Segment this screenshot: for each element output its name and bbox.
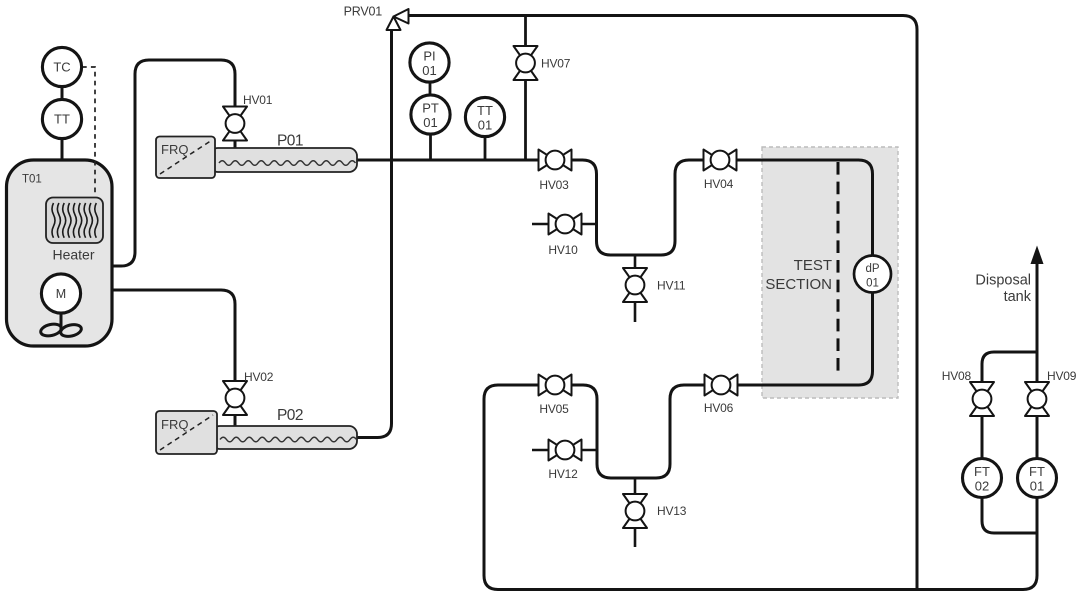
instrument PT01 (411, 95, 450, 134)
svg-text:HV13: HV13 (657, 504, 687, 518)
dashed test section centerline (837, 162, 840, 371)
svg-text:HV04: HV04 (704, 177, 734, 191)
valve HV04 (704, 150, 737, 171)
valve HV08 (970, 382, 994, 416)
instrument TT01 (465, 97, 504, 136)
valve HV01 (223, 107, 247, 141)
svg-text:02: 02 (975, 479, 989, 494)
svg-text:HV01: HV01 (243, 93, 273, 107)
svg-text:HV12: HV12 (548, 467, 578, 481)
instrument TT (42, 99, 81, 138)
wire: P01 outlet main line to HV03 (355, 159, 539, 162)
svg-text:HV05: HV05 (539, 402, 569, 416)
svg-text:P01: P01 (277, 133, 303, 150)
svg-text:FT: FT (974, 464, 990, 479)
svg-text:HV06: HV06 (704, 401, 734, 415)
svg-text:HV09: HV09 (1047, 369, 1077, 383)
svg-text:FT: FT (1029, 464, 1045, 479)
agitator propeller (40, 322, 83, 338)
valve HV06 (705, 375, 738, 396)
valve HV12 (549, 440, 582, 461)
svg-text:PRV01: PRV01 (344, 5, 383, 19)
valve HV13 (623, 494, 647, 528)
valve HV09 (1025, 382, 1049, 416)
svg-text:HV11: HV11 (657, 279, 686, 293)
wire: HV03 to HV04 U-loop (572, 160, 704, 255)
wire: FT02/HV08 parallel branch (982, 352, 1037, 533)
instrument dP01 (854, 256, 891, 293)
wire: HV11 drain stem (634, 255, 637, 322)
agitator shaft (60, 312, 63, 331)
svg-text:HV10: HV10 (548, 243, 578, 257)
wire: HV13 drain stem (634, 478, 637, 547)
svg-text:Heater: Heater (52, 247, 94, 263)
svg-text:TT: TT (54, 112, 70, 127)
valve HV03 (539, 150, 572, 171)
pump P02 body (212, 426, 357, 449)
valve HV05 (539, 375, 572, 396)
valve HV02 (223, 381, 247, 415)
svg-text:HV08: HV08 (942, 369, 972, 383)
wire: HV12 branch (532, 449, 597, 452)
svg-text:HV03: HV03 (539, 178, 569, 192)
dashed signal line TC to heater (82, 67, 95, 193)
wire: PT01 stem to main line (429, 134, 432, 160)
svg-text:TEST: TEST (794, 257, 832, 274)
valve HV11 (623, 268, 647, 302)
wire: HV06 to HV05 lower U-loop (572, 385, 705, 478)
VFD box FRQ (pump 1) (156, 137, 215, 179)
wire: tank lower outlet to HV02/P02 inlet (109, 290, 235, 426)
valve HV07 (514, 46, 538, 80)
svg-text:HV07: HV07 (541, 57, 571, 71)
wire: top relief header from PRV01 to right main (409, 16, 918, 590)
instrument FT01 (1018, 459, 1057, 498)
svg-text:SECTION: SECTION (765, 276, 832, 293)
wire: TC-TT connector (61, 87, 64, 99)
instrument TC (42, 47, 81, 86)
svg-text:Disposal: Disposal (975, 273, 1031, 289)
wire: HV07 branch line (524, 16, 527, 161)
instrument M (41, 274, 80, 313)
svg-text:P02: P02 (277, 407, 303, 424)
svg-text:TT: TT (477, 103, 493, 118)
VFD box FRQ (pump 2) (156, 411, 217, 454)
wire: TT to tank stem (61, 139, 64, 161)
wire: P02 outlet riser to PRV01 (355, 30, 392, 438)
svg-text:FRQ: FRQ (161, 417, 188, 432)
test section shaded area (762, 147, 898, 398)
tank T01 (7, 160, 113, 346)
svg-text:M: M (56, 287, 66, 301)
svg-text:FRQ: FRQ (161, 142, 188, 157)
svg-text:tank: tank (1004, 289, 1032, 305)
pump P01 body (210, 148, 357, 172)
svg-text:01: 01 (866, 278, 879, 290)
wire: HV05 return line down and bottom header to disposal riser (484, 263, 1037, 590)
heater element (46, 198, 103, 244)
svg-text:HV02: HV02 (244, 370, 274, 384)
instrument PI01 (410, 43, 449, 82)
svg-text:01: 01 (422, 63, 436, 78)
wire: PI01-PT01 connector (429, 83, 432, 96)
instrument FT02 (963, 459, 1002, 498)
wire: HV04 through test section dP loop to HV06 (737, 160, 873, 385)
disposal tank arrow (1031, 247, 1043, 264)
svg-text:01: 01 (423, 115, 437, 130)
wire: HV10 branch (532, 223, 597, 226)
valve HV10 (549, 214, 582, 235)
svg-text:T01: T01 (22, 174, 42, 186)
svg-text:PI: PI (423, 49, 435, 64)
wire: TT01 stem to main line (484, 137, 487, 161)
svg-text:01: 01 (478, 118, 492, 133)
svg-text:01: 01 (1030, 479, 1044, 494)
svg-text:PT: PT (422, 101, 439, 116)
relief valve PRV01 (387, 9, 409, 30)
wire: tank upper outlet to HV01/P01 inlet (109, 60, 235, 266)
svg-text:TC: TC (53, 60, 70, 75)
svg-text:dP: dP (865, 263, 879, 275)
